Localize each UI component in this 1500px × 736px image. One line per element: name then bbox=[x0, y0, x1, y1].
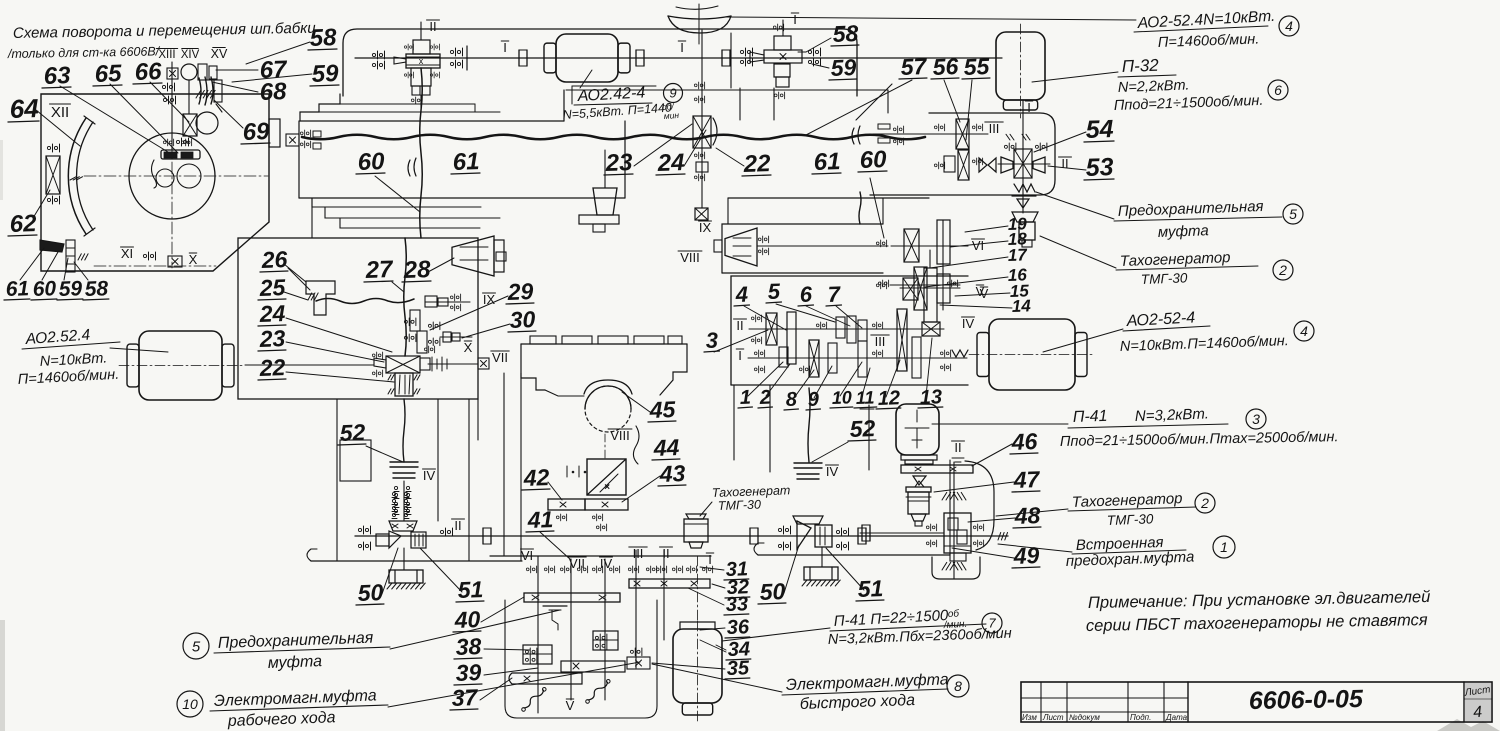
svg-text:38: 38 bbox=[455, 633, 482, 660]
callout 65 bbox=[93, 60, 123, 88]
callout 42 bbox=[522, 464, 550, 491]
bearing+stub shaft I left bbox=[450, 46, 467, 70]
leader 49 bbox=[952, 548, 1014, 558]
svg-text:4: 4 bbox=[734, 282, 748, 307]
title block sheet number bbox=[1472, 704, 1482, 722]
callout 32 bbox=[725, 576, 750, 599]
gear cluster shaft II top bbox=[372, 22, 440, 108]
bevel cluster 50-51 L bbox=[376, 492, 426, 548]
coupling shaft I c bbox=[722, 33, 731, 88]
svg-text:53: 53 bbox=[1085, 153, 1114, 182]
callout 39 bbox=[454, 659, 482, 686]
bevel cluster 50-51 R bbox=[778, 516, 848, 550]
svg-text:II: II bbox=[954, 440, 961, 455]
motor M9 label bbox=[574, 84, 652, 105]
callout 60 mid bbox=[356, 148, 386, 176]
leader 59r bbox=[812, 64, 829, 68]
bearing under plates bbox=[556, 514, 606, 531]
gear shaft III bbox=[934, 119, 982, 180]
dish pulley top bbox=[668, 4, 731, 44]
svg-text:63: 63 bbox=[43, 62, 71, 90]
center line vertical spindle bbox=[171, 62, 173, 268]
svg-text:№докум: №докум bbox=[1069, 713, 1100, 722]
leader predohr L bbox=[390, 610, 560, 649]
svg-text:60: 60 bbox=[859, 146, 887, 174]
svg-text:II: II bbox=[1061, 156, 1068, 171]
svg-text:9: 9 bbox=[669, 86, 676, 101]
cone item 28 bbox=[452, 236, 506, 276]
leader 63 bbox=[60, 86, 168, 152]
cup item 19 bbox=[1012, 212, 1038, 222]
bed inner line bbox=[566, 89, 888, 91]
shaft into K bbox=[860, 524, 944, 547]
svg-text:N=2,2кВт.: N=2,2кВт. bbox=[1118, 78, 1190, 96]
x-box VII bbox=[478, 350, 509, 369]
svg-text:3: 3 bbox=[705, 328, 718, 353]
svg-text:I: I bbox=[708, 552, 712, 567]
gear hatch cluster 68-69 bbox=[196, 77, 222, 112]
vertical shaft P32 bbox=[1022, 100, 1024, 213]
svg-text:4: 4 bbox=[1300, 323, 1308, 339]
axis XI center line bbox=[94, 265, 216, 267]
callout 14 bbox=[1011, 296, 1031, 316]
callout 34 bbox=[726, 638, 751, 661]
bracket item 25-26 bbox=[306, 281, 335, 315]
svg-text:6: 6 bbox=[799, 282, 813, 307]
leader 23 top bbox=[634, 124, 692, 166]
leader 56 bbox=[944, 80, 960, 122]
axis III label rf bbox=[871, 334, 889, 349]
svg-text:ТМГ-30: ТМГ-30 bbox=[718, 498, 762, 513]
callout 67 bbox=[259, 56, 288, 84]
tacho bottom body bbox=[684, 514, 708, 548]
spindle inner circles bbox=[156, 164, 201, 188]
svg-text:II: II bbox=[454, 518, 461, 533]
wavy vertical IV right bbox=[808, 388, 810, 462]
axis VIII label r bbox=[678, 250, 702, 265]
marks near worm bbox=[567, 466, 586, 477]
circled 2 r1 bbox=[1273, 260, 1293, 280]
axis X label bbox=[189, 252, 198, 267]
bearing stack IV bbox=[394, 486, 411, 514]
text P-41 spec r bbox=[1060, 429, 1339, 450]
callout 66t bbox=[133, 58, 163, 86]
svg-text:ТМГ-30: ТМГ-30 bbox=[1141, 270, 1188, 287]
callout 58b bbox=[83, 277, 109, 301]
axis V label M bbox=[566, 698, 575, 713]
svg-text:23: 23 bbox=[258, 325, 286, 352]
svg-text:муфта: муфта bbox=[1158, 222, 1209, 241]
leader 67 bbox=[216, 69, 258, 71]
headstock top mech x-box bbox=[167, 64, 217, 80]
callout 33 bbox=[724, 593, 749, 616]
text P-41 bottom2 bbox=[828, 626, 1012, 648]
svg-text:56: 56 bbox=[932, 53, 959, 80]
text P-41 bottom bbox=[830, 607, 986, 631]
leader tahogen r2 bbox=[996, 509, 1068, 516]
callout 50 R bbox=[758, 578, 786, 605]
svg-text:4: 4 bbox=[1285, 18, 1293, 34]
leaders 1-13 bbox=[748, 338, 932, 398]
leader 46 bbox=[972, 444, 1012, 466]
wavy horiz item 25 bbox=[316, 299, 414, 304]
svg-text:17: 17 bbox=[1007, 245, 1028, 265]
svg-text:37: 37 bbox=[451, 684, 479, 711]
wavy vertical at 860 bbox=[740, 84, 892, 224]
callout 35 bbox=[725, 657, 750, 680]
brace 44 bbox=[633, 426, 639, 464]
coupling disks shaft III bbox=[878, 124, 904, 145]
circled 1 bbox=[1213, 536, 1235, 558]
leader 24 top bbox=[684, 130, 706, 166]
leader 27 bbox=[392, 282, 404, 292]
leader 58r bbox=[798, 38, 831, 52]
label frame A02.42-4 bbox=[572, 86, 656, 104]
tacho body K bbox=[906, 487, 931, 526]
svg-text:22: 22 bbox=[742, 150, 771, 178]
svg-text:62: 62 bbox=[9, 210, 37, 238]
svg-text:52: 52 bbox=[339, 419, 366, 446]
text elektro R bbox=[782, 671, 949, 695]
hatch K top bbox=[942, 492, 966, 500]
bed steps top left bbox=[300, 94, 564, 121]
callout 45 bbox=[648, 396, 677, 423]
leader elektro R bbox=[652, 664, 782, 692]
callout 19 bbox=[1007, 214, 1027, 234]
shaft I line r bbox=[748, 357, 967, 359]
callout 61b bbox=[4, 277, 30, 301]
motor M3 base bbox=[901, 455, 937, 464]
callout 49 bbox=[1012, 542, 1040, 569]
axis XI label bbox=[121, 246, 134, 261]
callout 46 bbox=[1010, 428, 1038, 455]
leader tahogen c bbox=[700, 502, 712, 516]
callout 30 bbox=[508, 306, 536, 333]
svg-text:III: III bbox=[633, 546, 644, 561]
leader 58 top bbox=[246, 42, 310, 64]
svg-text:48: 48 bbox=[1013, 502, 1041, 529]
text predohran m bbox=[1066, 549, 1195, 570]
rounded cover right top bbox=[870, 113, 1055, 195]
svg-text:25: 25 bbox=[258, 274, 287, 301]
callout 52 R bbox=[848, 415, 876, 442]
coupling bottom c bbox=[858, 528, 866, 544]
callout 10 bbox=[830, 387, 853, 408]
feed box right outline bbox=[731, 276, 968, 385]
title block drawing number bbox=[1249, 685, 1365, 715]
callout 59b bbox=[57, 277, 83, 301]
svg-text:6: 6 bbox=[1274, 82, 1282, 98]
title text line 2 bbox=[7, 44, 161, 61]
leader P-41 r bbox=[932, 423, 1068, 425]
leader 53 bbox=[1048, 166, 1086, 170]
axis III label r bbox=[985, 121, 1003, 136]
svg-text:26: 26 bbox=[260, 246, 288, 273]
leader elektro L bbox=[388, 662, 640, 707]
svg-text:II: II bbox=[429, 19, 436, 34]
circled 7 bbox=[982, 613, 1002, 633]
cylinder item 18 bbox=[1019, 222, 1035, 247]
svg-text:30: 30 bbox=[509, 306, 536, 333]
motor M7 bottom bbox=[673, 556, 722, 723]
verticals M bbox=[538, 550, 664, 713]
safety clutch zigzag bbox=[1012, 184, 1036, 196]
circled 10 L bbox=[177, 691, 203, 717]
svg-text:36: 36 bbox=[726, 616, 750, 639]
leader 24b bbox=[286, 318, 392, 352]
vertical shaft K bbox=[953, 462, 955, 579]
callout 25 bbox=[258, 274, 287, 301]
x-box M bbox=[627, 648, 650, 669]
axis XIII label bbox=[156, 49, 177, 62]
leaders 34-35 to motor bbox=[700, 640, 726, 652]
svg-text:2: 2 bbox=[1278, 262, 1287, 278]
pedestal right lines bbox=[734, 385, 950, 555]
callout 15 bbox=[1009, 281, 1029, 301]
leader tahogen r1 bbox=[1040, 236, 1116, 268]
motor M4r label bbox=[1123, 309, 1210, 331]
leader 50 L bbox=[382, 548, 398, 594]
gears shaft II bbox=[766, 312, 867, 364]
svg-text:61: 61 bbox=[813, 148, 841, 176]
callout 60 r bbox=[858, 146, 888, 174]
circled 8 bbox=[947, 675, 969, 697]
gear plate M1 bbox=[524, 593, 620, 602]
gears shaft I bbox=[779, 309, 921, 378]
circled 5 L bbox=[183, 633, 209, 659]
svg-text:11: 11 bbox=[855, 387, 874, 408]
svg-text:58: 58 bbox=[309, 24, 337, 52]
leader 51 L bbox=[420, 548, 462, 592]
svg-text:I: I bbox=[1027, 100, 1031, 115]
svg-text:47: 47 bbox=[1012, 466, 1041, 493]
svg-text:44: 44 bbox=[652, 434, 680, 461]
headstock bottom left wedge bbox=[40, 240, 88, 272]
callout 23 top bbox=[604, 149, 634, 177]
title text line 1 bbox=[13, 20, 317, 42]
corner smudge br bbox=[1437, 719, 1500, 731]
leaders 31-35 bbox=[652, 567, 726, 669]
motor M4r spec bbox=[1120, 333, 1289, 355]
svg-text:2: 2 bbox=[758, 387, 771, 409]
top cluster V-IV bbox=[878, 250, 960, 322]
svg-text:X: X bbox=[189, 252, 198, 267]
svg-text:x: x bbox=[419, 56, 424, 66]
leader predohr bbox=[1036, 192, 1114, 219]
svg-text:II: II bbox=[662, 546, 669, 561]
svg-text:61: 61 bbox=[5, 277, 29, 301]
callout 5 bbox=[766, 279, 781, 304]
svg-text:об: об bbox=[948, 607, 960, 620]
shaft XIV vertical bbox=[188, 80, 190, 114]
bed dome circle bbox=[585, 386, 631, 432]
leader motor M4 bbox=[110, 348, 168, 352]
headstock body outline bbox=[41, 94, 269, 271]
callout 61 mid bbox=[451, 148, 480, 176]
text P-32 n bbox=[1114, 93, 1264, 114]
callout 58 top bbox=[308, 24, 338, 52]
callout 13 bbox=[918, 386, 943, 409]
motor M9 A02.42-4 bbox=[536, 34, 638, 82]
svg-text:ТМГ-30: ТМГ-30 bbox=[1107, 511, 1154, 528]
callout 31 bbox=[724, 558, 749, 581]
swivel arc bbox=[68, 116, 95, 236]
axis I label rf bbox=[736, 348, 743, 363]
svg-text:N=3,2кВт.: N=3,2кВт. bbox=[1135, 405, 1210, 425]
svg-text:35: 35 bbox=[726, 657, 750, 680]
motor M9 spec bbox=[562, 100, 679, 122]
callout 22 right bbox=[742, 150, 772, 178]
svg-text:59: 59 bbox=[830, 54, 857, 81]
x-box item 66 bbox=[183, 112, 218, 136]
motor M9 circled 9 bbox=[664, 84, 683, 103]
callout 26 bbox=[260, 246, 288, 273]
svg-text:28: 28 bbox=[402, 256, 431, 284]
shaft XIII vertical bbox=[171, 62, 173, 150]
bevel small pair bbox=[1017, 199, 1029, 208]
main gear cluster F bbox=[374, 356, 430, 373]
ground support R bbox=[802, 567, 840, 586]
svg-text:33: 33 bbox=[725, 593, 748, 616]
axis VIII label c bbox=[608, 428, 632, 443]
leader 48 bbox=[968, 518, 1015, 522]
svg-text:6606-0-05: 6606-0-05 bbox=[1249, 685, 1365, 715]
axis I label P32 bbox=[1006, 100, 1033, 140]
leaders 58-61 bottom bbox=[20, 248, 88, 280]
leader 23b bbox=[286, 342, 384, 362]
svg-text:22: 22 bbox=[258, 354, 286, 381]
svg-text:14: 14 bbox=[1011, 296, 1031, 316]
callout 51 R bbox=[856, 575, 884, 602]
svg-text:IV: IV bbox=[826, 464, 839, 479]
axis labels M bbox=[521, 546, 714, 571]
text A02-52.4 top2 bbox=[1158, 31, 1260, 51]
callout 3 bbox=[704, 328, 719, 353]
motor M4 n bbox=[17, 367, 119, 388]
svg-text:I: I bbox=[738, 348, 742, 363]
callout 23b bbox=[258, 325, 286, 352]
svg-text:60: 60 bbox=[357, 148, 385, 176]
leader 43 bbox=[622, 476, 660, 502]
worm box 43 bbox=[587, 459, 626, 495]
svg-text:52: 52 bbox=[849, 415, 876, 442]
circled 4 top bbox=[1279, 16, 1299, 36]
bed left box bbox=[299, 90, 625, 198]
svg-text:П-32: П-32 bbox=[1121, 56, 1159, 76]
clutch drum F bbox=[388, 373, 420, 396]
spring M a bbox=[521, 683, 546, 716]
svg-text:59: 59 bbox=[58, 277, 82, 301]
callout 58 right bbox=[831, 20, 859, 47]
callout 4 bbox=[734, 282, 749, 307]
svg-text:69: 69 bbox=[242, 118, 270, 146]
svg-text:50: 50 bbox=[759, 578, 786, 605]
bed body center bbox=[521, 344, 687, 396]
callout 57 bbox=[899, 53, 928, 80]
callout 40 bbox=[453, 606, 481, 633]
leader 22 right bbox=[716, 148, 744, 166]
tbar under plate bbox=[543, 606, 567, 630]
svg-text:50: 50 bbox=[357, 579, 384, 606]
bed lower steps verticals bbox=[312, 104, 475, 238]
callout 18 bbox=[1007, 229, 1027, 249]
svg-text:29: 29 bbox=[506, 278, 534, 305]
vert dashdot bed bbox=[604, 434, 606, 459]
axis II label 53 bbox=[1059, 156, 1072, 171]
bevel pair under III bbox=[979, 158, 996, 172]
circled 2 r2 bbox=[1195, 493, 1215, 513]
svg-text:XI: XI bbox=[121, 246, 133, 261]
bearing under 66 bbox=[176, 138, 188, 146]
shaft I bbox=[355, 57, 1002, 59]
svg-text:58: 58 bbox=[84, 277, 108, 301]
svg-text:39: 39 bbox=[455, 659, 482, 686]
wavy vertical shaft XIII bbox=[420, 68, 423, 238]
leader 60r bbox=[870, 178, 884, 238]
text P-32 N bbox=[1118, 78, 1190, 96]
leader 30 bbox=[462, 324, 510, 338]
leader 42 bbox=[548, 482, 562, 500]
text tmg r2 bbox=[1107, 511, 1154, 528]
circled 6 bbox=[1268, 80, 1288, 100]
leader 69 bbox=[214, 100, 243, 128]
svg-text:3: 3 bbox=[1252, 411, 1260, 427]
callout 54 bbox=[1084, 115, 1114, 144]
bearings shafts r bbox=[751, 315, 950, 373]
callout 24 top bbox=[656, 149, 685, 177]
callout 63 bbox=[42, 62, 72, 90]
leader 52 R bbox=[812, 442, 848, 462]
svg-text:XII: XII bbox=[51, 104, 69, 121]
bearing row M bbox=[526, 566, 712, 573]
axis XV label bbox=[211, 47, 228, 61]
svg-text:IV: IV bbox=[423, 468, 436, 483]
svg-text:8: 8 bbox=[954, 678, 962, 694]
text bystr bbox=[800, 692, 916, 713]
leader 54 bbox=[1034, 132, 1086, 152]
svg-text:VI: VI bbox=[972, 238, 984, 253]
leader 50 R bbox=[784, 545, 799, 593]
shaft IX left cluster bbox=[425, 292, 495, 311]
pedestal left lines bbox=[337, 373, 521, 561]
edge smudge left bbox=[0, 140, 5, 731]
leader 59 top bbox=[232, 74, 312, 82]
gear cluster shaft IX bbox=[693, 82, 717, 181]
callout 51 L bbox=[456, 576, 484, 603]
svg-text:51: 51 bbox=[457, 576, 483, 603]
lower plate M2 bbox=[561, 661, 625, 672]
svg-text:68: 68 bbox=[259, 78, 287, 106]
svg-text:V: V bbox=[566, 698, 575, 713]
svg-text:×: × bbox=[604, 482, 610, 493]
axis II label L bbox=[452, 518, 465, 533]
svg-text:Изм: Изм bbox=[1022, 713, 1037, 722]
bearing box M b bbox=[593, 631, 618, 650]
motor M4 label bbox=[22, 326, 120, 349]
callout 12 bbox=[876, 387, 901, 410]
svg-text:51: 51 bbox=[857, 575, 883, 602]
shaft from motor left bbox=[245, 364, 374, 366]
svg-text:Дата: Дата bbox=[1165, 713, 1188, 722]
motor M3 P-41 bbox=[896, 404, 939, 455]
thick wavy shaft line bbox=[302, 135, 925, 140]
callout 59 top bbox=[310, 60, 340, 88]
x-box on axis XI bbox=[168, 256, 182, 267]
leader 60 mid bbox=[375, 176, 420, 212]
callout 64 bbox=[8, 93, 40, 124]
long leader line to A02-52.4 label bbox=[726, 17, 1136, 20]
svg-text:43: 43 bbox=[658, 460, 686, 487]
